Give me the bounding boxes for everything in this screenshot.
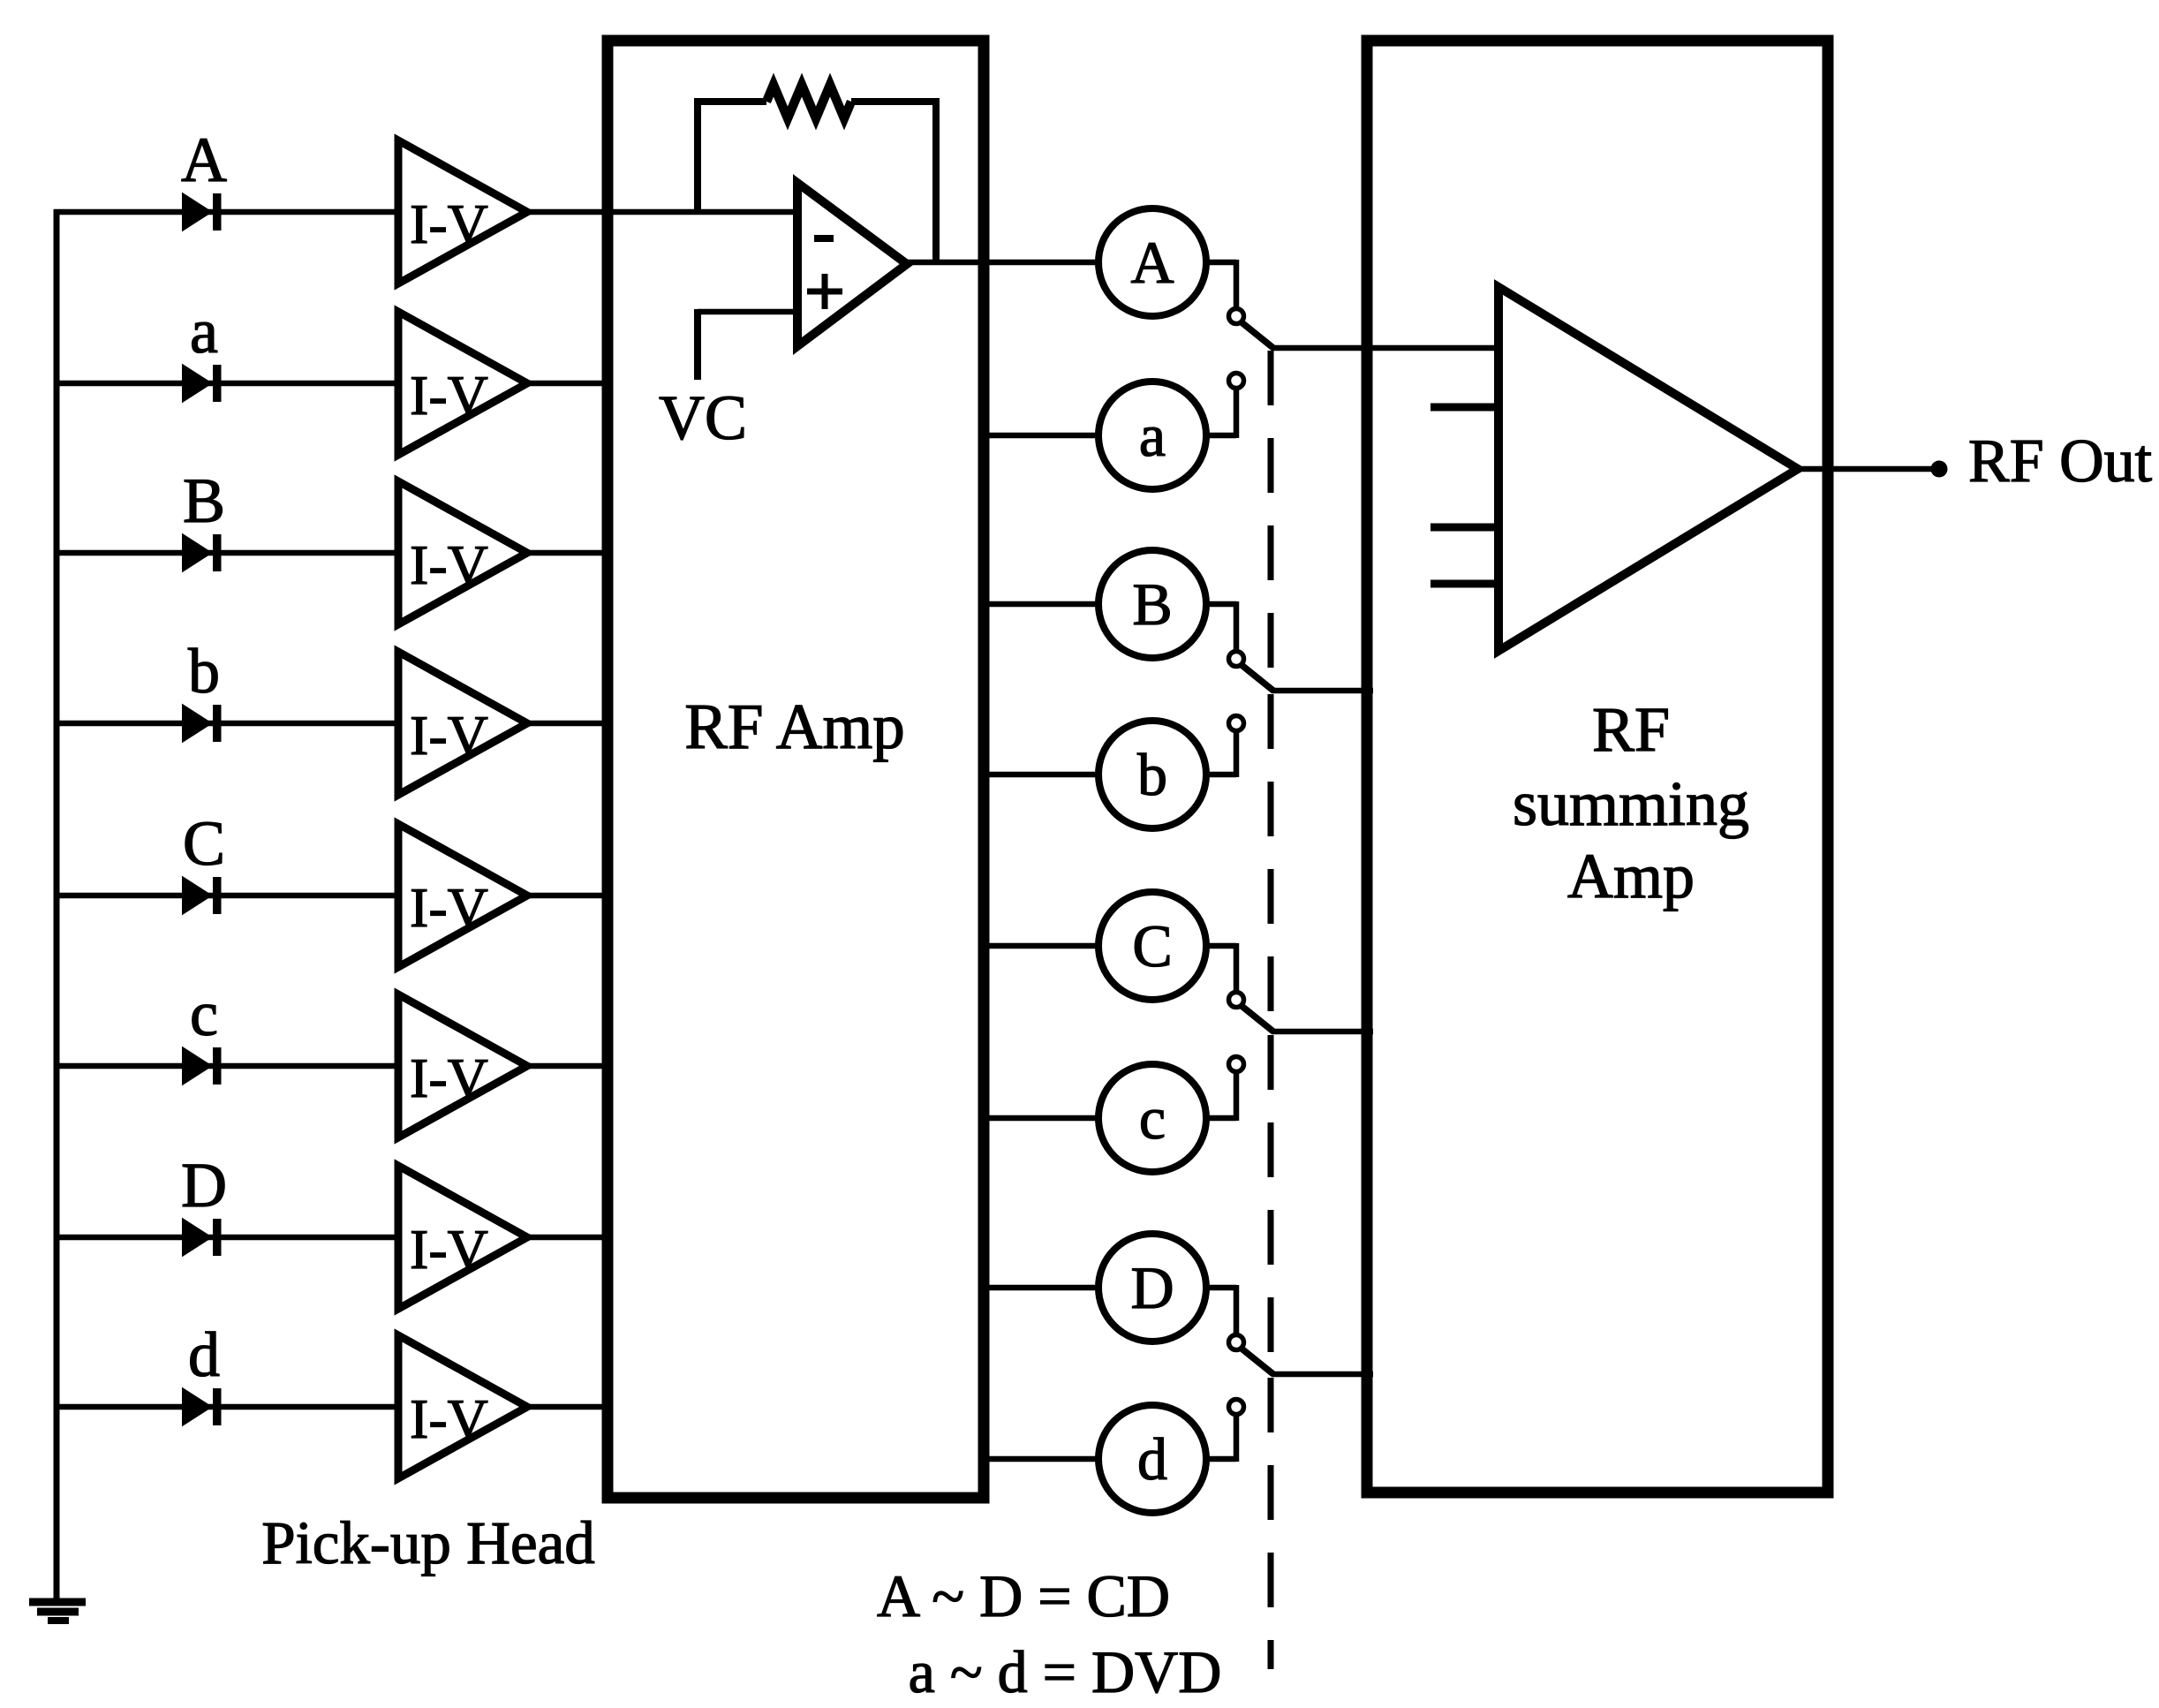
I-V amp row a: [398, 312, 527, 455]
wire row d: bus to I-V input: [54, 1404, 399, 1410]
I-V amp row D: [398, 1166, 527, 1309]
gain stage C: [1098, 892, 1206, 1000]
node RF Out: [1931, 461, 1948, 478]
switch SW1 (A/a): [1229, 309, 1274, 389]
wire ground bus: [54, 209, 60, 1600]
photodiode B: [183, 534, 222, 571]
wire I-V A output: [527, 209, 797, 215]
svg-text:C: C: [183, 808, 225, 879]
wire RF Amp output b: [984, 772, 1099, 778]
wire feedback left vertical: [694, 102, 701, 215]
gain stage c: [1098, 1064, 1206, 1172]
svg-text:C: C: [1132, 912, 1172, 979]
I-V amp row b: [398, 652, 527, 795]
svg-text:I-V: I-V: [410, 533, 488, 596]
wire row D: bus to I-V input: [54, 1235, 399, 1241]
wire I-V B output: [527, 550, 613, 556]
wire RF Amp output B: [984, 601, 1099, 608]
svg-text:RF Amp: RF Amp: [684, 691, 905, 762]
svg-text:B: B: [1132, 571, 1172, 638]
wire feedback right vertical: [932, 98, 940, 263]
gain stage a: [1098, 382, 1206, 489]
wire d to switch contact: [1206, 1414, 1236, 1462]
svg-text:I-V: I-V: [410, 1387, 488, 1450]
svg-text:B: B: [183, 465, 225, 536]
photodiode b: [183, 705, 222, 742]
wire A to switch contact: [1206, 260, 1236, 309]
photodiode D: [183, 1219, 222, 1256]
gang linkage dashed line: [1268, 351, 1274, 1669]
svg-text:D: D: [181, 1150, 227, 1221]
wire RF Amp output d: [984, 1456, 1099, 1462]
photodiode c: [183, 1047, 222, 1085]
gain stage B: [1098, 550, 1206, 658]
svg-text:A: A: [1130, 229, 1174, 296]
gain stage b: [1098, 721, 1206, 828]
wire D to switch contact: [1206, 1285, 1236, 1335]
svg-text:I-V: I-V: [410, 1218, 488, 1281]
wire c to switch contact: [1206, 1071, 1236, 1121]
photodiode a: [183, 365, 222, 402]
wire op-amp non-inverting input: [698, 309, 797, 315]
svg-text:VC: VC: [659, 382, 747, 453]
gain stage A: [1098, 208, 1206, 316]
wire I-V D output: [527, 1235, 613, 1241]
wire row B: bus to I-V input: [54, 550, 399, 556]
summing amp input stub 3: [1431, 580, 1495, 588]
wire I-V a output: [527, 381, 613, 387]
svg-text:I-V: I-V: [410, 876, 488, 939]
switch SW3 (C/c): [1229, 993, 1274, 1072]
I-V amp row d: [398, 1335, 527, 1478]
resistor R1: [766, 85, 851, 118]
wire RF Amp output a: [984, 433, 1099, 439]
summing amp input stub 2: [1431, 524, 1495, 532]
wire op-amp output to gain stage A: [907, 260, 1099, 266]
svg-text:D: D: [1130, 1254, 1174, 1321]
RF Amp block: [608, 41, 984, 1498]
svg-text:I-V: I-V: [410, 193, 488, 255]
svg-text:I-V: I-V: [410, 364, 488, 427]
wire b to switch contact: [1206, 730, 1236, 777]
svg-text:I-V: I-V: [410, 704, 488, 767]
I-V amp row c: [398, 994, 527, 1137]
svg-text:summing: summing: [1513, 768, 1749, 839]
wire I-V C output: [527, 893, 613, 899]
svg-text:RF Out: RF Out: [1968, 427, 2153, 495]
wire row C: bus to I-V input: [54, 893, 399, 899]
gain stage d: [1098, 1405, 1206, 1513]
I-V amp row C: [398, 824, 527, 967]
wire VC stub: [694, 309, 701, 380]
svg-text:a: a: [1139, 402, 1166, 469]
wire RF Amp output C: [984, 943, 1099, 949]
wire row A: bus to I-V input: [54, 209, 399, 215]
wire I-V b output: [527, 721, 613, 727]
svg-text:d: d: [188, 1319, 220, 1390]
wire row b: bus to I-V input: [54, 721, 399, 727]
wire row c: bus to I-V input: [54, 1063, 399, 1069]
svg-text:c: c: [1139, 1085, 1166, 1152]
wire I-V d output: [527, 1404, 613, 1410]
svg-text:c: c: [190, 979, 218, 1049]
wire switch SW2 pole: [1272, 688, 1373, 694]
svg-text:A: A: [181, 125, 227, 195]
svg-text:A ~ D = CD: A ~ D = CD: [877, 1562, 1170, 1629]
wire switch SW1 pole: [1272, 345, 1498, 351]
svg-text:Amp: Amp: [1567, 841, 1695, 911]
photodiode A: [183, 193, 222, 231]
svg-text:b: b: [1137, 741, 1167, 808]
svg-text:a ~ d = DVD: a ~ d = DVD: [909, 1638, 1222, 1705]
wire RF output: [1796, 466, 1939, 472]
wire feedback top right: [851, 98, 936, 105]
ground: [29, 1602, 86, 1621]
svg-text:RF: RF: [1592, 694, 1670, 765]
gain stage D: [1098, 1234, 1206, 1341]
label RF summing Amp: [1513, 694, 1749, 911]
svg-text:I-V: I-V: [410, 1047, 488, 1109]
wire I-V c output: [527, 1063, 613, 1069]
wire C to switch contact: [1206, 943, 1236, 993]
wire B to switch contact: [1206, 601, 1236, 652]
wire feedback top left: [694, 98, 766, 105]
switch SW4 (D/d): [1229, 1335, 1274, 1415]
wire a to switch contact: [1206, 388, 1236, 438]
photodiode d: [183, 1388, 222, 1425]
photodiode C: [183, 877, 222, 914]
svg-text:d: d: [1137, 1425, 1167, 1493]
wire RF Amp output D: [984, 1285, 1099, 1291]
svg-text:a: a: [190, 296, 218, 367]
wire switch SW3 pole: [1272, 1029, 1373, 1035]
svg-text:Pick-up Head: Pick-up Head: [261, 1509, 594, 1576]
wire row a: bus to I-V input: [54, 381, 399, 387]
summing amp U2: [1498, 287, 1798, 651]
RF summing Amp block: [1367, 41, 1828, 1493]
wire RF Amp output c: [984, 1115, 1099, 1122]
I-V amp row A: [398, 140, 527, 283]
switch SW2 (B/b): [1229, 652, 1274, 731]
I-V amp row B: [398, 481, 527, 624]
wire switch SW4 pole: [1272, 1372, 1373, 1378]
op-amp U1: [797, 183, 907, 346]
summing amp input stub 1: [1431, 404, 1495, 412]
svg-text:b: b: [188, 636, 220, 707]
